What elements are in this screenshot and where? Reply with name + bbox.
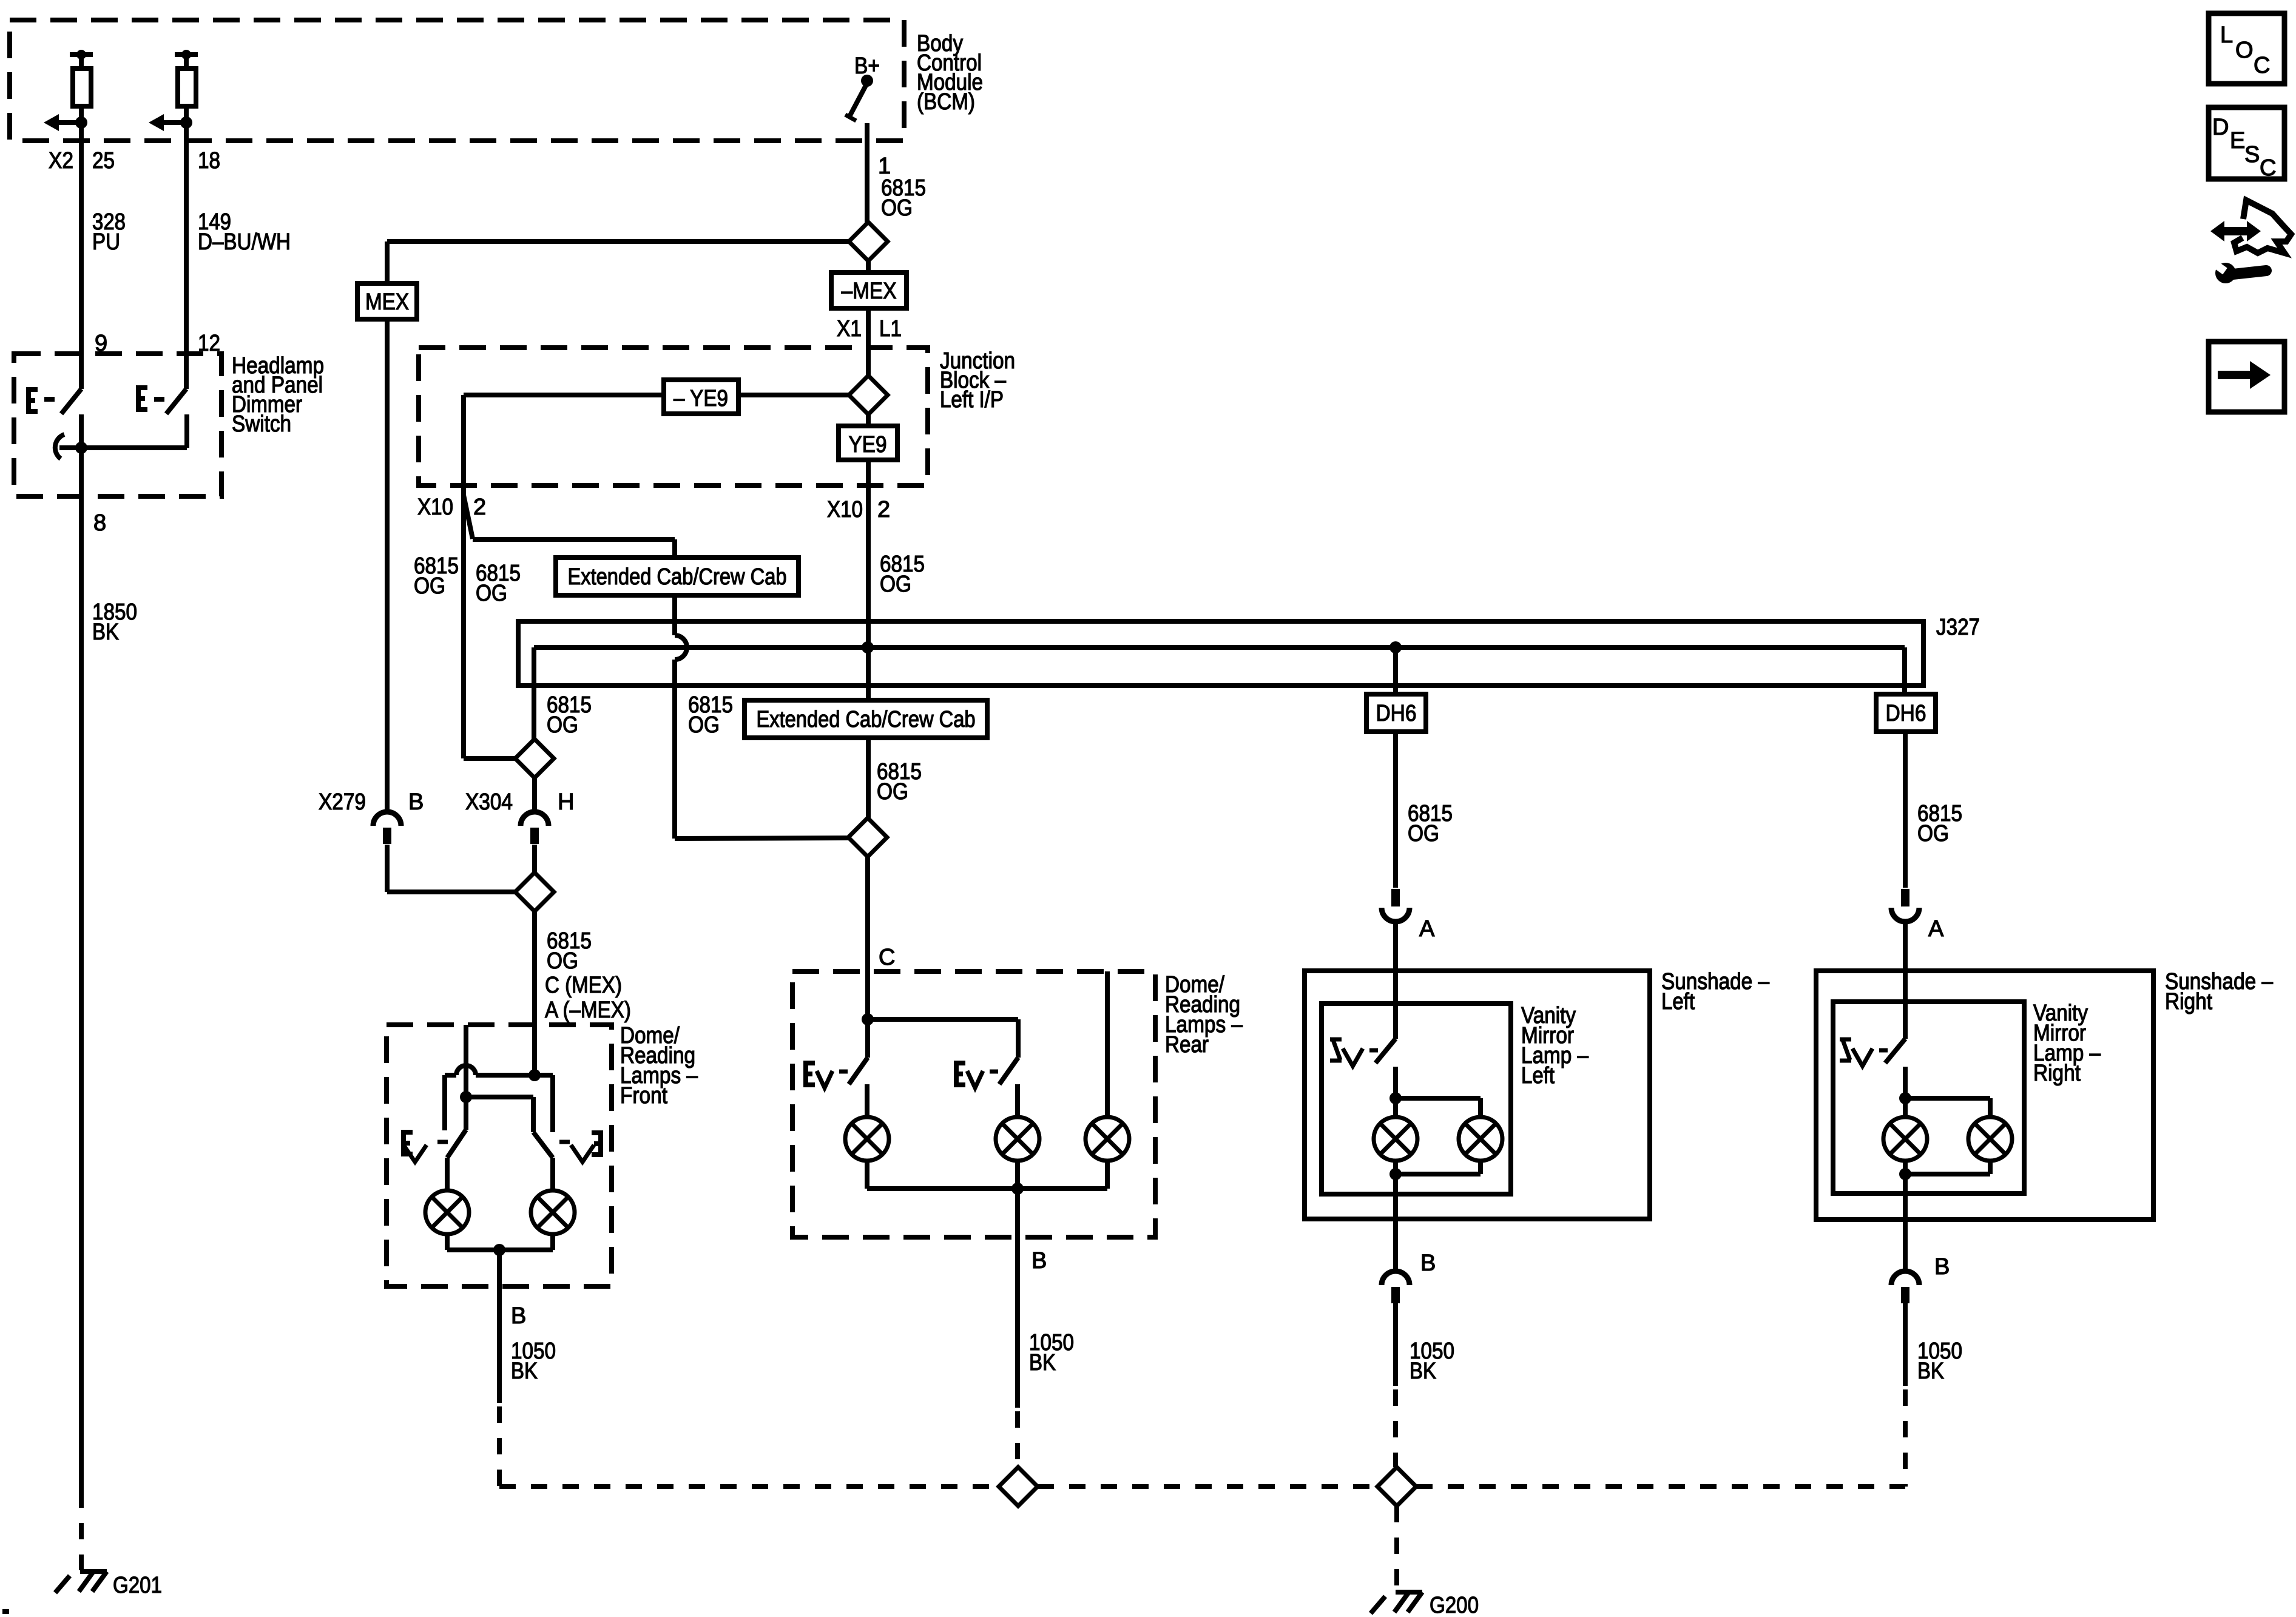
wire front dome pin B 1050 BK <box>497 1250 502 1403</box>
mechanical hook on dimmer common <box>55 434 64 459</box>
wire dashed 1050 BK rear to splice <box>1015 1411 1020 1467</box>
dimmer switch contact 1 (E actuator) <box>26 390 38 411</box>
wire to rear lamp 1 <box>865 1084 869 1117</box>
svg-text:C: C <box>2260 155 2276 181</box>
vanity left lamp 1 <box>1374 1117 1417 1161</box>
svg-text:OG: OG <box>688 712 720 738</box>
YE9 option box <box>866 414 871 426</box>
junction front dome feed <box>528 1069 541 1081</box>
svg-text:X10: X10 <box>417 495 453 520</box>
wire drop to DH6 left <box>1393 647 1398 694</box>
- YE9 option box <box>738 393 849 397</box>
splice diamond above connector X304 <box>515 739 554 778</box>
rear dome lamp 1 <box>845 1117 889 1161</box>
splice diamond on 6815 OG at BCM output <box>865 222 869 223</box>
svg-text:A: A <box>1419 916 1435 942</box>
svg-text:Left: Left <box>1661 989 1695 1014</box>
Sunshade - Left box <box>1305 971 1650 1219</box>
svg-text:X10: X10 <box>827 497 863 522</box>
svg-text:18: 18 <box>198 148 220 174</box>
wire dashed continuation to G201 <box>79 1491 84 1570</box>
svg-text:DH6: DH6 <box>1376 701 1417 726</box>
wire drop from J327 to splice above X304 <box>532 647 536 739</box>
svg-text:–MEX: –MEX <box>842 279 897 304</box>
junction vanity left top <box>1389 1092 1402 1104</box>
junction on J327 (YE9 drop) <box>862 641 874 653</box>
svg-text:O: O <box>2235 38 2254 63</box>
svg-text:YE9: YE9 <box>849 432 887 457</box>
svg-text:PU: PU <box>92 229 120 255</box>
front dome lamp left <box>425 1190 469 1234</box>
svg-text:– YE9: – YE9 <box>674 386 728 411</box>
svg-text:C: C <box>879 945 895 970</box>
svg-text:BK: BK <box>92 619 119 645</box>
junction vanity right top <box>1899 1092 1911 1104</box>
svg-text:L: L <box>2220 22 2233 48</box>
svg-text:BK: BK <box>511 1359 538 1384</box>
svg-text:E: E <box>2230 128 2245 154</box>
svg-text:2: 2 <box>473 495 486 520</box>
wire vanity right to pin B <box>1903 1174 1908 1271</box>
svg-text:Left I/P: Left I/P <box>940 387 1004 413</box>
wire 6815 OG to rear dome pin C <box>865 857 870 1058</box>
Extended Cab/Crew Cab box (upper) <box>556 558 799 595</box>
front dome lamp right <box>531 1190 575 1234</box>
svg-text:Right: Right <box>2033 1061 2081 1086</box>
svg-text:D: D <box>2212 115 2229 140</box>
DH6 option box left <box>1366 694 1426 732</box>
wire 6815 OG to dome/reading lamps front <box>532 911 537 1075</box>
go-to arrow legend box <box>2209 342 2284 412</box>
svg-text:B: B <box>511 1303 526 1329</box>
wire stub from box top (front dome) <box>464 1025 468 1130</box>
Junction Block - Left I/P dashed box <box>419 348 928 485</box>
arrow (internal BCM output) pin 18 <box>149 114 164 131</box>
wire 149 D-BU/WH from BCM pin 18 to dimmer switch pin 12 <box>184 106 189 389</box>
svg-text:G200: G200 <box>1430 1593 1479 1617</box>
resistor element in BCM pin X2-25 circuit <box>70 52 93 57</box>
wire rear dome pin B 1050 BK <box>1015 1189 1020 1408</box>
svg-text:OG: OG <box>547 948 578 974</box>
connector service icon (arrow, terminal, wrench) <box>2210 221 2261 241</box>
BCM internal switch from B+ <box>849 83 867 116</box>
svg-text:OG: OG <box>880 572 911 597</box>
wire to front lamp left <box>445 1158 450 1190</box>
dimmer switch contact 2 (E actuator) <box>136 388 147 410</box>
wire BCM B+ output to pin 1 <box>865 123 869 222</box>
rear dome lamp 2 <box>996 1117 1039 1161</box>
svg-text:Right: Right <box>2165 989 2212 1014</box>
ground G200 <box>1396 1590 1422 1595</box>
junction vanity right bottom <box>1988 1161 1993 1174</box>
svg-text:OG: OG <box>881 195 913 221</box>
LOC legend box <box>2209 13 2284 84</box>
svg-text:C (MEX): C (MEX) <box>545 973 622 998</box>
Extended Cab/Crew Cab box (lower) <box>745 700 987 738</box>
J327 wire 6815 OG <box>534 645 1905 650</box>
junction rear dome feed <box>862 1013 874 1025</box>
svg-text:C: C <box>2254 53 2270 78</box>
Sunshade - Right box <box>1816 971 2153 1220</box>
wire to front lamp right <box>550 1158 555 1190</box>
connector pin B (sunshade right) <box>1891 1271 1919 1285</box>
svg-text:X279: X279 <box>319 789 366 815</box>
svg-text:A (–MEX): A (–MEX) <box>545 998 631 1023</box>
vanity left switch (lid actuator) <box>1330 1039 1342 1061</box>
wire stub from box top to rear lamp 3 <box>1105 971 1110 1117</box>
wire lamp outputs joined <box>445 1234 450 1250</box>
svg-text:G201: G201 <box>113 1573 162 1598</box>
svg-text:25: 25 <box>92 148 115 174</box>
wire dashed 1050 BK right to ground bus <box>1903 1389 1908 1487</box>
wire rear lamp outputs joined <box>865 1161 869 1189</box>
svg-text:Front: Front <box>620 1083 667 1109</box>
wire 328 PU from BCM pin 25 to dimmer switch pin 9 <box>79 106 84 389</box>
wire dashed 1050 BK to ground bus <box>497 1406 502 1487</box>
wire X279 to lower splice <box>387 890 515 894</box>
wire from - YE9 box to junction block pin X10-2 (left) <box>464 393 664 397</box>
svg-text:BK: BK <box>1917 1359 1944 1384</box>
svg-text:2: 2 <box>877 497 890 522</box>
svg-text:OG: OG <box>547 712 578 738</box>
svg-text:Extended Cab/Crew Cab: Extended Cab/Crew Cab <box>568 564 787 590</box>
MEX option box <box>357 283 417 319</box>
svg-text:BK: BK <box>1410 1359 1436 1384</box>
wire dashed 1050 BK to splice <box>1393 1389 1398 1467</box>
rear dome switch 1 (E actuator) <box>803 1063 815 1085</box>
J327 harness outline <box>518 621 1923 686</box>
connector X279 pin B <box>373 812 401 826</box>
svg-text:MEX: MEX <box>365 289 409 315</box>
svg-text:B: B <box>1420 1251 1436 1276</box>
junction front dome output <box>493 1244 505 1256</box>
wire dashed splice to G200 <box>1394 1506 1399 1591</box>
svg-text:OG: OG <box>1408 821 1439 846</box>
wire branch from X10-2 slanting to extended-cab feed <box>464 495 473 539</box>
svg-text:A: A <box>1928 916 1944 942</box>
svg-text:X304: X304 <box>465 789 513 815</box>
svg-text:X1: X1 <box>837 316 862 342</box>
junction on J327 (left DH6 drop) <box>1389 641 1402 653</box>
Vanity Mirror Lamp - Left box <box>1322 1004 1511 1194</box>
svg-text:OG: OG <box>476 581 507 606</box>
page mark bottom left <box>2 1609 9 1614</box>
wire switch 1 output <box>79 414 84 448</box>
splice diamond joining X279 and X304 wires <box>515 873 554 911</box>
junction front dome inner <box>460 1091 472 1103</box>
svg-text:(BCM): (BCM) <box>917 89 975 115</box>
wire joining switch outputs <box>59 445 187 450</box>
junction vanity left bottom <box>1478 1161 1483 1174</box>
svg-text:B: B <box>1032 1248 1047 1274</box>
svg-text:B: B <box>1934 1254 1950 1280</box>
svg-text:Switch: Switch <box>232 411 291 437</box>
vanity right lamp 2 <box>1968 1117 2012 1161</box>
wire 6815 OG DH6 left to connector A <box>1393 732 1398 888</box>
ground G201 <box>80 1569 107 1574</box>
wire 1850 BK from dimmer pin 8 toward G201 <box>79 448 84 1491</box>
svg-text:OG: OG <box>414 573 445 599</box>
front dome switch left (E actuator) <box>401 1132 413 1154</box>
wire dashed between splices <box>1038 1484 1377 1489</box>
splice diamond inside junction block <box>849 376 888 414</box>
splice diamond extended cab (rear feed) <box>848 818 887 857</box>
svg-text:H: H <box>558 789 574 815</box>
svg-text:S: S <box>2244 142 2260 167</box>
wire to rear lamp 2 <box>1015 1084 1020 1117</box>
vanity right switch (lid actuator) <box>1840 1039 1851 1061</box>
svg-text:B: B <box>408 789 424 815</box>
svg-text:8: 8 <box>93 510 106 536</box>
connector X304 pin H <box>532 778 537 812</box>
wire 6815 OG to MEX box <box>387 239 849 244</box>
wire from -MEX box into junction block <box>866 308 871 376</box>
arrow (internal BCM output) pin 25 <box>44 114 59 131</box>
connector pin A (sunshade left) <box>1391 889 1400 906</box>
svg-text:J327: J327 <box>1936 615 1980 640</box>
hop over stub wire <box>456 1065 476 1075</box>
wire extended cab feed down to rear splice <box>672 539 677 635</box>
svg-text:L1: L1 <box>879 316 902 342</box>
wire switch 2 output <box>184 414 189 448</box>
connector pin B (sunshade left) <box>1382 1271 1410 1285</box>
svg-text:Rear: Rear <box>1165 1032 1209 1058</box>
-MEX option box <box>866 261 871 272</box>
wire vanity left to pin B <box>1393 1174 1398 1271</box>
wire 1050 BK (sunshade left) <box>1393 1303 1398 1386</box>
junction dimmer common <box>75 442 87 454</box>
DESC legend box <box>2209 107 2284 179</box>
Dome/Reading Lamps - Rear dashed box <box>792 971 1155 1237</box>
svg-text:X2: X2 <box>49 148 73 174</box>
wire rear dome feed crossbar <box>868 1017 1018 1022</box>
junction rear dome output <box>1011 1183 1024 1195</box>
svg-text:OG: OG <box>877 779 908 805</box>
rear dome lamp 3 <box>1086 1117 1129 1161</box>
svg-text:OG: OG <box>1917 821 1949 846</box>
wire vanity right lamps feed <box>1903 1067 1908 1174</box>
wire vanity left lamps feed <box>1393 1067 1398 1174</box>
Headlamp and Panel Dimmer Switch dashed box <box>14 354 221 496</box>
wire branch straight down to splice above X304 <box>461 495 466 758</box>
wire front dome feed crossbar <box>445 1073 456 1078</box>
wire 6815 OG DH6 right to connector A <box>1903 732 1908 888</box>
wire inner crossbar <box>466 1095 533 1099</box>
wire drop J327 right end to DH6 right <box>1902 647 1907 694</box>
splice diamond (ground bus left) <box>999 1467 1038 1506</box>
rear dome switch 2 (E actuator) <box>954 1063 965 1085</box>
wire 6815 OG below MEX box to connector X279 <box>385 319 390 812</box>
svg-text:Extended Cab/Crew Cab: Extended Cab/Crew Cab <box>757 707 976 732</box>
front dome switch right (E actuator mirrored) <box>592 1133 603 1155</box>
splice diamond (ground bus right) <box>1377 1467 1416 1506</box>
DH6 option box right <box>1876 694 1936 732</box>
wire 1050 BK (sunshade right) <box>1903 1303 1908 1386</box>
svg-text:Left: Left <box>1521 1063 1555 1089</box>
Body Control Module (BCM) dashed box <box>10 20 904 141</box>
Vanity Mirror Lamp - Right box <box>1833 1002 2024 1193</box>
svg-text:D–BU/WH: D–BU/WH <box>198 229 291 255</box>
Dome/Reading Lamps - Front dashed box <box>387 1025 612 1286</box>
wire YE9 output through pin X10-2 (right) down to J327 <box>866 460 871 819</box>
resistor element in BCM pin X2-18 circuit <box>175 52 198 57</box>
vanity right lamp 1 <box>1883 1117 1927 1161</box>
svg-text:DH6: DH6 <box>1886 701 1926 726</box>
connector pin A (sunshade right) <box>1901 889 1909 906</box>
svg-text:BK: BK <box>1029 1350 1056 1376</box>
hop over J327 wire <box>675 635 687 660</box>
vanity left lamp 2 <box>1459 1117 1502 1161</box>
